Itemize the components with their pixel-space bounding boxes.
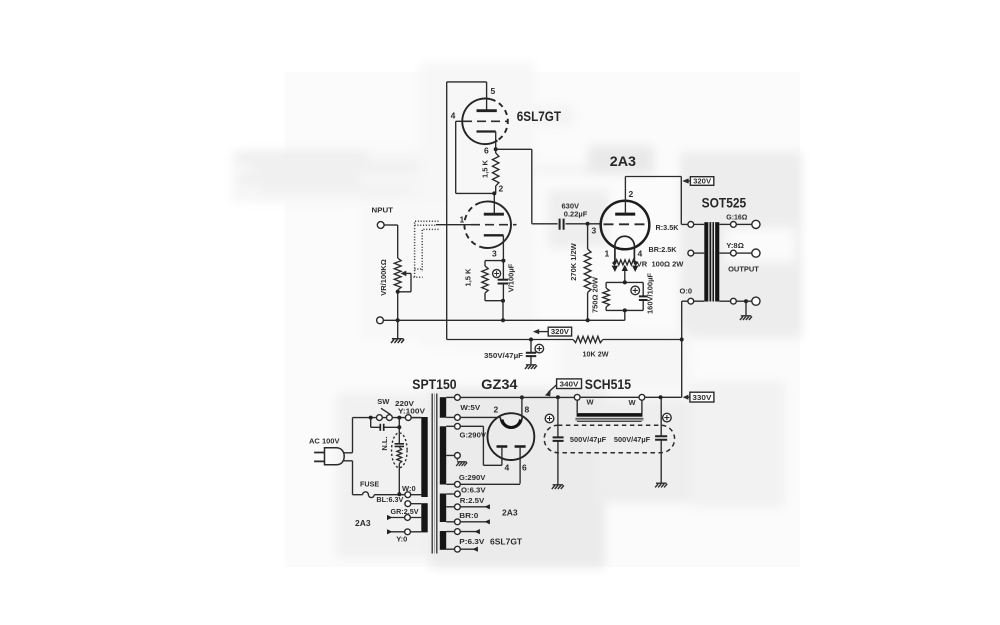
capacitor spark snubber xyxy=(371,418,400,431)
svg-text:320V: 320V xyxy=(551,327,569,336)
label SW xyxy=(377,397,390,406)
svg-text:V/100µF: V/100µF xyxy=(507,263,516,292)
transformer T1 6.3V winding P xyxy=(440,531,446,550)
svg-text:6: 6 xyxy=(484,146,489,156)
fuse F1 xyxy=(353,492,405,498)
svg-text:SPT150: SPT150 xyxy=(412,377,456,392)
svg-text:1,5 K: 1,5 K xyxy=(481,159,490,178)
node P:6.3V bottom tap with arrow xyxy=(446,546,478,552)
label G:290V xyxy=(460,431,487,440)
svg-text:O:6.3V: O:6.3V xyxy=(461,485,486,494)
node B+ join xyxy=(680,338,684,342)
node BR:0 tap with arrow xyxy=(446,519,490,525)
svg-text:4: 4 xyxy=(505,463,510,473)
connector P1 AC plug xyxy=(314,448,352,465)
pin 1 label xyxy=(605,249,610,259)
label W left xyxy=(587,398,595,407)
potentiometer VR 100ohm hum balance xyxy=(612,260,639,283)
pin 4 label xyxy=(638,249,643,259)
pot wiper arm xyxy=(398,271,411,292)
value label 160V/100uF xyxy=(646,273,655,314)
label SOT525 xyxy=(702,196,747,211)
wire B+ top loop to V1a plate xyxy=(447,82,487,111)
capacitor V/100uF (U1b cathode bypass) xyxy=(493,261,509,301)
label 220V Y:100V xyxy=(395,399,425,416)
wire V2 plate to 320V and OPT xyxy=(625,177,688,225)
ground (HT center tap) xyxy=(456,462,467,466)
node 270K ground junction xyxy=(586,318,590,322)
label SPT150 xyxy=(412,377,456,392)
svg-text:G:16Ω: G:16Ω xyxy=(726,213,747,222)
ground (cap2) xyxy=(655,483,667,487)
wire T2 secondary 0 ohm xyxy=(719,297,760,305)
wire AC loop vertical xyxy=(352,418,354,495)
svg-text:BR:2.5K: BR:2.5K xyxy=(649,245,678,254)
svg-text:2: 2 xyxy=(494,405,499,415)
resistor 750ohm 20W xyxy=(603,282,610,310)
label GZ34 xyxy=(481,377,518,392)
node 350V cap junction xyxy=(529,338,533,342)
capacitor C1 0.22uF coupling xyxy=(532,219,602,230)
label Y:8ohm xyxy=(726,241,744,250)
wire 320V B+ bus xyxy=(447,339,682,341)
node G:290V bottom tap xyxy=(446,481,460,487)
svg-text:8: 8 xyxy=(525,405,530,415)
value label 630V 0.22uF xyxy=(562,202,588,219)
label W:0 xyxy=(402,484,416,493)
value label V/100uF xyxy=(507,263,516,292)
value label 350V/47uF xyxy=(484,351,523,360)
node BL:6.3V tap xyxy=(405,501,421,507)
neon lamp N.L. xyxy=(392,433,408,494)
transformer T1 HT winding xyxy=(440,426,446,484)
label 320V on bus xyxy=(533,327,572,336)
svg-text:VR/100KΩ: VR/100KΩ xyxy=(379,259,388,295)
label W right xyxy=(629,398,637,407)
svg-text:BL:6.3V: BL:6.3V xyxy=(376,495,403,504)
pin 2 label xyxy=(629,189,634,199)
svg-text:340V: 340V xyxy=(560,380,579,389)
svg-text:1: 1 xyxy=(460,215,465,225)
wire T2 secondary 16 ohm xyxy=(719,220,760,228)
svg-text:G:290V: G:290V xyxy=(460,431,487,440)
node O:6.3V tap xyxy=(446,491,460,497)
svg-text:G:290V: G:290V xyxy=(459,473,486,482)
svg-text:100Ω 2W: 100Ω 2W xyxy=(652,260,685,269)
transformer T1 6.3V/2.5V winding xyxy=(440,494,446,523)
node T2 primary R:3.5K tap xyxy=(688,222,704,228)
svg-text:320V: 320V xyxy=(693,177,711,186)
shielded cable (dotted) xyxy=(414,221,439,277)
svg-text:Y:8Ω: Y:8Ω xyxy=(726,241,744,250)
tube V2 2A3 xyxy=(601,201,650,262)
transformer T1 2.5V heater winding (left) xyxy=(421,503,427,532)
node cathode pin3 junction xyxy=(501,259,505,263)
node Y:100V junction xyxy=(397,415,411,421)
svg-text:Y:0: Y:0 xyxy=(396,535,407,544)
capacitor 500V/47uF first xyxy=(545,397,563,484)
svg-text:6SL7GT: 6SL7GT xyxy=(490,537,523,547)
wire cathode network top rail xyxy=(606,280,643,284)
transformer T1 SPT150 primary winding xyxy=(411,417,428,497)
node Y:0 tap with arrow xyxy=(387,529,421,535)
svg-text:0.22µF: 0.22µF xyxy=(564,210,588,219)
node filter cap2 junction xyxy=(659,395,663,399)
svg-text:1,5 K: 1,5 K xyxy=(464,268,473,287)
label BR:2.5K xyxy=(649,245,678,254)
label OUTPUT xyxy=(728,265,759,274)
pin 8 label GZ34 xyxy=(525,405,530,415)
tube V3 GZ34 xyxy=(488,413,535,483)
resistor 10K 2W xyxy=(573,336,603,342)
svg-text:P:6.3V: P:6.3V xyxy=(459,537,484,546)
pin 4 label GZ34 xyxy=(505,463,510,473)
pin 6 label GZ34 xyxy=(522,463,527,473)
transformer T1 core xyxy=(432,394,437,554)
wire cathode network bottom rail xyxy=(606,308,643,312)
ground (input) xyxy=(391,320,404,343)
node SW cap left junction xyxy=(369,416,373,420)
wire AC top bus xyxy=(353,417,422,419)
svg-text:VR: VR xyxy=(637,260,648,269)
value label 10K 2W xyxy=(583,350,610,359)
pin 3 label xyxy=(492,249,497,259)
node R:2.5V tap with arrow xyxy=(446,504,490,510)
svg-text:270K 1/2W: 270K 1/2W xyxy=(569,242,578,280)
svg-text:3: 3 xyxy=(492,249,497,259)
label GR:2.5V xyxy=(391,507,419,516)
transformer T1 5V winding (right) xyxy=(440,397,446,418)
node pot ground xyxy=(396,318,400,322)
svg-text:4: 4 xyxy=(451,111,456,121)
svg-text:W:0: W:0 xyxy=(402,484,416,493)
tube U1a 6SL7GT upper triode xyxy=(462,99,508,150)
label O:6.3V xyxy=(461,485,486,494)
svg-text:R:2.5V: R:2.5V xyxy=(460,496,485,505)
wire GZ34 pin8 to B+ bus xyxy=(520,395,524,417)
capacitor 350V/47uF xyxy=(526,340,544,365)
node grid resistor junction xyxy=(586,222,590,226)
svg-text:N.L.: N.L. xyxy=(380,436,389,450)
label FUSE xyxy=(360,479,379,488)
label G:290V bottom xyxy=(459,473,486,482)
switch SW xyxy=(377,408,393,420)
wire pin4 to pin2 vertical xyxy=(456,121,495,193)
label 6SL7GT xyxy=(517,109,562,124)
label AC 100V xyxy=(309,437,340,446)
wire B+ left vertical (pin5 to 320V bus) xyxy=(446,82,448,340)
label Y:0 xyxy=(396,535,407,544)
capacitor 160V/100uF xyxy=(631,282,648,310)
value label 270K 1/2W xyxy=(569,242,578,280)
label O:0 xyxy=(680,287,693,296)
label 2A3 filament supply xyxy=(502,508,518,518)
svg-text:2A3: 2A3 xyxy=(610,154,637,169)
svg-text:W:5V: W:5V xyxy=(460,403,480,412)
svg-text:3: 3 xyxy=(592,226,597,236)
svg-text:SCH515: SCH515 xyxy=(585,377,632,392)
label SCH515 xyxy=(585,377,632,392)
node T2 primary BR:2.5K tap xyxy=(688,250,704,256)
node T2 primary O:0 tap xyxy=(682,298,705,304)
svg-text:350V/47µF: 350V/47µF xyxy=(484,351,523,360)
tube U1b 6SL7GT lower triode xyxy=(464,193,516,260)
svg-text:GZ34: GZ34 xyxy=(481,377,518,392)
label INPUT xyxy=(372,206,394,215)
svg-text:500V/47µF: 500V/47µF xyxy=(570,435,607,444)
node P:6.3V top tap with arrow xyxy=(446,529,480,535)
label BL:6.3V xyxy=(376,495,403,504)
svg-text:W: W xyxy=(587,398,595,407)
value label 500V/47uF xyxy=(570,435,607,444)
wire T2 secondary 8 ohm xyxy=(719,249,760,257)
node W:5V bottom tap xyxy=(446,415,460,421)
label 340V with arrow xyxy=(545,379,582,397)
label R:3.5K xyxy=(656,223,680,232)
node GR:2.5V tap with arrow xyxy=(387,515,421,521)
svg-text:2: 2 xyxy=(629,189,634,199)
svg-text:NPUT: NPUT xyxy=(372,206,394,215)
value label 1.5K xyxy=(481,159,490,178)
ground (output) xyxy=(740,301,752,320)
inductor L1 choke SCH515 xyxy=(574,394,645,421)
ground (350V cap) xyxy=(525,365,537,369)
dashed capacitor block outline xyxy=(544,425,674,453)
wire HT B+ top bus xyxy=(460,396,681,398)
svg-text:SOT525: SOT525 xyxy=(702,196,747,211)
ground (cap1) xyxy=(552,485,564,489)
resistor 1.5K (U1b cathode) xyxy=(482,261,504,301)
node pot bottom junction xyxy=(396,290,400,294)
svg-text:FUSE: FUSE xyxy=(360,479,379,488)
node G:290V top tap xyxy=(446,423,460,429)
node pin6 junction xyxy=(494,147,498,151)
svg-text:330V: 330V xyxy=(692,393,711,402)
connector J1 input hot xyxy=(377,222,397,229)
label G:16ohm xyxy=(726,213,747,222)
svg-text:6SL7GT: 6SL7GT xyxy=(517,109,562,124)
svg-text:10K 2W: 10K 2W xyxy=(583,350,610,359)
svg-text:R:3.5K: R:3.5K xyxy=(656,223,680,232)
pin 3 label xyxy=(592,226,597,236)
pin 5 label xyxy=(491,86,496,96)
svg-text:2A3: 2A3 xyxy=(502,508,518,518)
value label 1.5K xyxy=(464,268,473,287)
wire W:5V to GZ34 heater pin2 xyxy=(460,416,500,418)
pin 4 label xyxy=(451,111,456,121)
wire G:290V top to GZ34 plate pin4 xyxy=(460,426,502,465)
wire O:0 to 330V bus vertical xyxy=(681,301,683,397)
svg-text:BR:0: BR:0 xyxy=(459,511,478,520)
svg-text:GR:2.5V: GR:2.5V xyxy=(391,507,419,516)
label W:5V xyxy=(460,403,480,412)
label 2A3 xyxy=(610,154,637,169)
label P:6.3V xyxy=(459,537,484,546)
svg-text:6: 6 xyxy=(522,463,527,473)
svg-text:4: 4 xyxy=(638,249,643,259)
label 6SL7GT heater supply xyxy=(490,537,523,547)
pin 2 label GZ34 xyxy=(494,405,499,415)
svg-text:160V/100µF: 160V/100µF xyxy=(646,273,655,314)
resistor 270K 1/2W xyxy=(584,224,591,320)
svg-text:5: 5 xyxy=(491,86,496,96)
svg-text:500V/47µF: 500V/47µF xyxy=(614,435,651,444)
capacitor 500V/47uF second xyxy=(655,397,671,483)
transformer T2 SOT525 core xyxy=(704,222,719,301)
svg-text:Y:100V: Y:100V xyxy=(398,407,425,416)
svg-text:OUTPUT: OUTPUT xyxy=(728,265,759,274)
svg-text:W: W xyxy=(629,398,637,407)
label BR:0 xyxy=(459,511,478,520)
label N.L. xyxy=(380,436,389,450)
svg-text:O:0: O:0 xyxy=(680,287,693,296)
svg-text:1: 1 xyxy=(605,249,610,259)
pin 1 label xyxy=(460,215,465,225)
node pin2 junction xyxy=(492,184,503,196)
node HT center tap xyxy=(446,453,460,461)
wire ground bus xyxy=(383,310,624,320)
svg-text:SW: SW xyxy=(377,397,390,406)
connector J1 input ground xyxy=(377,317,384,324)
value label 500V/47uF second xyxy=(614,435,651,444)
node filter cap1 junction xyxy=(556,395,560,399)
label 2A3 heater xyxy=(355,518,371,528)
node W:0 junction xyxy=(397,492,421,498)
value label VR 100ohm 2W xyxy=(637,260,684,269)
label 320V at plate xyxy=(682,177,714,186)
pin 6 label xyxy=(484,146,489,156)
svg-text:AC 100V: AC 100V xyxy=(309,437,340,446)
value label 750ohm 20W xyxy=(591,276,600,313)
node W:5V top tap xyxy=(446,395,460,401)
wire pin6 to coupling cap xyxy=(496,149,532,224)
resistor 1.5K (U1a cathode) xyxy=(493,149,499,193)
label R:2.5V xyxy=(460,496,485,505)
node snubber to N.L. junction xyxy=(397,418,401,434)
value label VR/100K xyxy=(379,259,388,295)
svg-text:2: 2 xyxy=(499,184,504,194)
node cathode network to ground bus xyxy=(501,299,505,323)
potentiometer VR/100K xyxy=(394,225,401,320)
wire input line to U1b grid pin1 xyxy=(436,224,471,226)
svg-text:2A3: 2A3 xyxy=(355,518,371,528)
label 330V with arrow xyxy=(683,392,714,402)
wire G:290V bottom to GZ34 plate pin6 xyxy=(460,483,520,485)
svg-text:750Ω 20W: 750Ω 20W xyxy=(591,276,600,313)
